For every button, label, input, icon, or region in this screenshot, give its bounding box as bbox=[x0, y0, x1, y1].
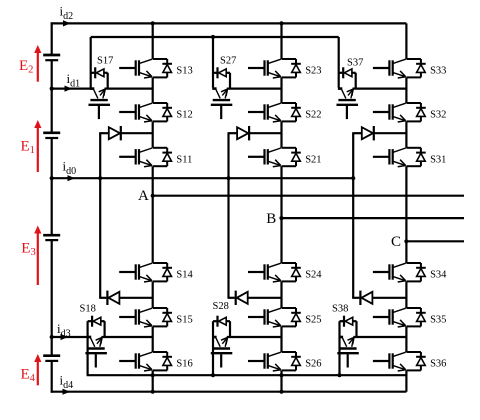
clamp diode leg2 bottom bbox=[228, 291, 282, 305]
svg-text:S35: S35 bbox=[430, 315, 446, 326]
capacitor E1 bbox=[43, 133, 60, 138]
label E2 bbox=[19, 58, 33, 76]
label S11 bbox=[176, 154, 192, 165]
label E4 source arrow bbox=[34, 354, 41, 385]
wire aux feed line bbox=[91, 36, 339, 38]
IGBT S17 with series diode bbox=[90, 67, 108, 98]
svg-text:S16: S16 bbox=[176, 359, 192, 370]
svg-text:S14: S14 bbox=[176, 270, 193, 281]
IGBT S18 with series diode bbox=[87, 316, 105, 347]
node top rail leg1 bbox=[151, 21, 155, 25]
node bottom rail leg2 bbox=[279, 390, 283, 394]
svg-text:S28: S28 bbox=[213, 301, 229, 312]
wire leg2 string S21-output bbox=[280, 166, 282, 263]
wire leg3 string S33-S32 bbox=[405, 77, 407, 103]
label i_d4 bbox=[60, 373, 74, 392]
label S17 bbox=[97, 55, 113, 66]
wire S27 to string bbox=[227, 87, 282, 89]
wire leg1 string S14-S15 bbox=[152, 281, 154, 308]
IGBT S23 bbox=[248, 59, 301, 78]
node top rail leg2 bbox=[279, 21, 283, 25]
clamp diode leg3 bottom bbox=[352, 291, 406, 305]
node B bbox=[279, 216, 283, 220]
label B bbox=[266, 211, 276, 227]
IGBT S22 bbox=[248, 103, 301, 122]
label E1 bbox=[21, 139, 35, 157]
label C bbox=[391, 234, 401, 250]
node C bbox=[404, 239, 408, 243]
node bus id1 bbox=[50, 87, 54, 91]
IGBT S33 bbox=[373, 59, 426, 78]
node A bbox=[151, 194, 155, 198]
IGBT S26 bbox=[248, 352, 301, 371]
label S34 bbox=[430, 270, 447, 281]
svg-text:B: B bbox=[266, 211, 276, 227]
svg-text:S33: S33 bbox=[430, 66, 446, 77]
wire S38 to string bbox=[353, 336, 406, 338]
IGBT S12 bbox=[119, 103, 172, 122]
wire leg1 string S12-S11 bbox=[152, 121, 154, 147]
svg-text:S21: S21 bbox=[305, 154, 321, 165]
wire left DC bus segment 2 bbox=[51, 60, 53, 133]
IGBT S36 bbox=[373, 352, 426, 371]
node tie line leg1 string bbox=[151, 373, 155, 377]
node tie line cell2 bbox=[211, 373, 215, 377]
IGBT S31 bbox=[373, 148, 426, 167]
label S25 bbox=[305, 315, 321, 326]
svg-text:S31: S31 bbox=[430, 154, 446, 165]
svg-text:S36: S36 bbox=[430, 359, 446, 370]
label S27 bbox=[220, 55, 236, 66]
label S12 bbox=[176, 110, 192, 121]
wire S37 to string bbox=[353, 87, 407, 89]
label i_d3 bbox=[57, 321, 71, 340]
svg-text:S18: S18 bbox=[80, 304, 96, 315]
label E2 source arrow bbox=[34, 45, 41, 82]
svg-text:S24: S24 bbox=[305, 270, 322, 281]
wire left DC bus segment 1 bbox=[51, 22, 53, 55]
node id0 clamp leg2 bbox=[226, 176, 230, 180]
wire S27 top lead bbox=[212, 37, 214, 88]
capacitor S37 cell bbox=[337, 100, 359, 119]
svg-text:S23: S23 bbox=[305, 66, 321, 77]
wire leg2 string bottom bbox=[280, 370, 282, 391]
node id0 clamp leg3 bbox=[351, 176, 355, 180]
label S15 bbox=[176, 315, 192, 326]
label S37 bbox=[347, 57, 363, 68]
svg-text:S11: S11 bbox=[176, 154, 192, 165]
label S38 bbox=[332, 304, 348, 315]
wire bottom DC rail id4 bbox=[51, 389, 407, 395]
wire top DC rail id2 bbox=[51, 20, 407, 26]
IGBT S13 bbox=[119, 59, 172, 78]
wire leg1 string bottom bbox=[152, 370, 154, 391]
svg-text:S25: S25 bbox=[305, 315, 321, 326]
label S32 bbox=[430, 110, 446, 121]
wire S38 left lead bbox=[338, 321, 340, 375]
label S18 bbox=[80, 304, 96, 315]
wire S28 left lead bbox=[212, 321, 214, 375]
label S22 bbox=[305, 110, 321, 121]
node bus id3 bbox=[50, 335, 54, 339]
IGBT S32 bbox=[373, 103, 426, 122]
IGBT S15 bbox=[119, 308, 172, 327]
label E3 source arrow bbox=[34, 226, 41, 286]
IGBT S27 with series diode bbox=[212, 67, 230, 98]
label S36 bbox=[430, 359, 446, 370]
label i_d2 bbox=[60, 4, 74, 23]
svg-text:S12: S12 bbox=[176, 110, 192, 121]
node bottom rail leg1 bbox=[151, 390, 155, 394]
IGBT S38 with series diode bbox=[339, 316, 357, 347]
wire leg2 string S24-S25 bbox=[280, 281, 282, 308]
node id0 clamp leg1 bbox=[98, 176, 102, 180]
svg-text:S26: S26 bbox=[305, 359, 321, 370]
capacitor E4 bbox=[43, 356, 60, 361]
label S28 bbox=[213, 301, 229, 312]
wire leg3 string S32-S31 bbox=[405, 121, 407, 147]
wire leg2 string S23-S22 bbox=[280, 77, 282, 103]
wire rail id1 bbox=[51, 86, 94, 92]
svg-text:S22: S22 bbox=[305, 110, 321, 121]
wire leg2 string S22-S21 bbox=[280, 121, 282, 147]
wire leg1 clamp vertical bbox=[99, 133, 101, 298]
label i_d0 bbox=[63, 159, 77, 178]
IGBT S21 bbox=[248, 148, 301, 167]
wire leg3 clamp vertical bbox=[352, 133, 354, 298]
capacitor S28 cell bbox=[211, 349, 233, 368]
capacitor S18 cell bbox=[85, 349, 107, 368]
label S21 bbox=[305, 154, 321, 165]
wire leg3 string bottom bbox=[405, 370, 407, 391]
capacitor E2 bbox=[43, 55, 60, 60]
label S16 bbox=[176, 359, 192, 370]
svg-text:S13: S13 bbox=[176, 66, 192, 77]
wire output phase B bbox=[282, 217, 465, 219]
capacitor S27 cell bbox=[211, 100, 233, 119]
wire S37 top lead bbox=[338, 37, 340, 88]
IGBT S16 bbox=[119, 352, 172, 371]
svg-text:S38: S38 bbox=[332, 304, 348, 315]
IGBT S37 with series diode bbox=[338, 67, 356, 98]
svg-text:S15: S15 bbox=[176, 315, 192, 326]
label i_d1 bbox=[67, 71, 81, 90]
label S35 bbox=[430, 315, 446, 326]
wire left DC bus segment 5 bbox=[51, 361, 53, 393]
svg-text:C: C bbox=[391, 234, 401, 250]
label A bbox=[138, 188, 149, 204]
label S31 bbox=[430, 154, 446, 165]
svg-text:S17: S17 bbox=[97, 55, 113, 66]
wire bottom cell tie line bbox=[87, 374, 407, 376]
svg-text:A: A bbox=[138, 188, 149, 204]
wire leg1 string S11-output bbox=[152, 166, 154, 263]
label S14 bbox=[176, 270, 193, 281]
IGBT S25 bbox=[248, 308, 301, 327]
wire leg1 string top bbox=[152, 23, 154, 59]
label S24 bbox=[305, 270, 322, 281]
clamp diode leg1 bottom bbox=[99, 291, 153, 305]
node tie line leg2 string bbox=[279, 373, 283, 377]
wire rail id0 neutral bbox=[51, 175, 354, 181]
label E3 bbox=[21, 241, 35, 259]
label E4 bbox=[21, 366, 36, 384]
wire leg1 string S13-S12 bbox=[152, 77, 154, 103]
label S13 bbox=[176, 66, 192, 77]
label S33 bbox=[430, 66, 446, 77]
wire leg3 string top bbox=[405, 23, 407, 59]
wire output phase C bbox=[406, 240, 464, 242]
svg-text:S32: S32 bbox=[430, 110, 446, 121]
wire leg1 string S15-S16 bbox=[152, 326, 154, 352]
capacitor E3 bbox=[43, 235, 60, 240]
label S23 bbox=[305, 66, 321, 77]
capacitor S17 cell bbox=[89, 100, 111, 119]
IGBT S34 bbox=[373, 263, 426, 282]
node tie line cell3 bbox=[337, 373, 341, 377]
wire leg3 string S35-S36 bbox=[405, 326, 407, 352]
IGBT S35 bbox=[373, 308, 426, 327]
clamp diode leg3 top bbox=[352, 126, 406, 140]
wire S18 to string bbox=[101, 336, 152, 338]
label E1 source arrow bbox=[34, 120, 41, 172]
wire left DC bus segment 4 bbox=[51, 240, 53, 356]
IGBT S11 bbox=[119, 148, 172, 167]
svg-text:S37: S37 bbox=[347, 57, 363, 68]
wire output phase A bbox=[153, 195, 464, 197]
label S26 bbox=[305, 359, 321, 370]
wire rail id3 bbox=[51, 334, 91, 340]
wire S28 to string bbox=[227, 336, 282, 338]
wire S17 to string bbox=[105, 87, 153, 89]
IGBT S14 bbox=[119, 263, 172, 282]
IGBT S28 with series diode bbox=[212, 316, 230, 347]
wire leg2 string S25-S26 bbox=[280, 326, 282, 352]
capacitor S38 cell bbox=[337, 349, 359, 368]
wire left DC bus segment 3 bbox=[51, 138, 53, 235]
clamp diode leg2 top bbox=[228, 126, 282, 140]
wire leg2 clamp vertical bbox=[227, 133, 229, 298]
node aux feed leg2 bbox=[211, 35, 215, 39]
IGBT S24 bbox=[248, 263, 301, 282]
wire leg3 string S34-S35 bbox=[405, 281, 407, 308]
svg-text:S34: S34 bbox=[430, 270, 447, 281]
wire leg2 string top bbox=[280, 23, 282, 59]
wire S18 left lead bbox=[86, 321, 88, 375]
svg-text:S27: S27 bbox=[220, 55, 236, 66]
wire leg3 string S31-output bbox=[405, 166, 407, 263]
node bus id0 bbox=[50, 176, 54, 180]
clamp diode leg1 top bbox=[99, 126, 153, 140]
wire S17 top lead bbox=[90, 37, 92, 88]
